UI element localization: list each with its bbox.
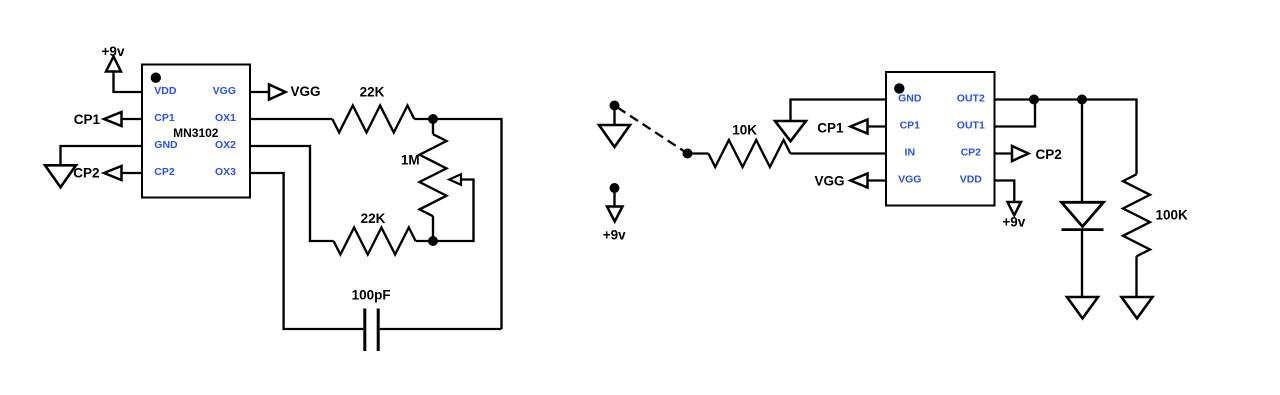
svg-text:OX3: OX3 [215,166,236,178]
svg-text:+9v: +9v [1002,215,1025,230]
svg-text:100K: 100K [1156,208,1189,223]
svg-text:OUT1: OUT1 [957,120,985,132]
svg-text:100pF: 100pF [352,287,391,302]
svg-text:VGG: VGG [213,85,236,97]
svg-text:VGG: VGG [291,84,321,99]
svg-text:CP2: CP2 [1036,147,1062,162]
svg-text:GND: GND [154,139,178,151]
svg-text:MN3102: MN3102 [173,126,219,140]
svg-text:CP1: CP1 [74,112,101,127]
svg-text:OX2: OX2 [215,139,236,151]
svg-text:CP1: CP1 [817,121,844,136]
svg-text:CP1: CP1 [900,120,921,132]
svg-text:VDD: VDD [154,85,177,97]
svg-text:OUT2: OUT2 [957,93,985,105]
svg-text:VGG: VGG [898,174,921,186]
svg-text:CP2: CP2 [73,165,99,180]
svg-text:VGG: VGG [814,174,844,189]
svg-text:IN: IN [905,147,916,159]
svg-text:OX1: OX1 [215,112,236,124]
svg-text:CP2: CP2 [154,166,175,178]
svg-text:22K: 22K [360,84,385,99]
svg-text:CP2: CP2 [961,147,982,159]
svg-text:CP1: CP1 [154,112,175,124]
svg-text:22K: 22K [361,211,386,226]
svg-text:10K: 10K [732,123,757,138]
svg-text:GND: GND [898,93,922,105]
svg-text:VDD: VDD [960,174,983,186]
svg-text:1M: 1M [401,152,420,167]
svg-text:+9v: +9v [603,228,626,243]
